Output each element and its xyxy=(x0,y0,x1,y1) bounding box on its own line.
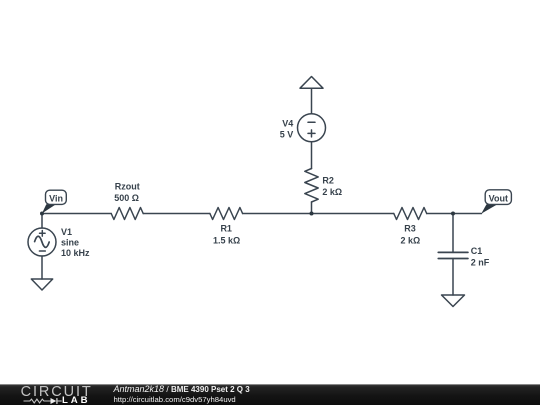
svg-text:R3: R3 xyxy=(404,224,416,234)
svg-text:5 V: 5 V xyxy=(280,129,294,139)
svg-text:2 nF: 2 nF xyxy=(471,257,490,267)
svg-text:V1: V1 xyxy=(61,227,72,237)
svg-text:2 kΩ: 2 kΩ xyxy=(401,236,421,246)
svg-text:Antman2k18 / BME 4390 Pset 2 Q: Antman2k18 / BME 4390 Pset 2 Q 3 xyxy=(113,384,251,394)
svg-text:Vin: Vin xyxy=(49,193,63,203)
svg-text:R1: R1 xyxy=(220,224,232,234)
svg-text:500 Ω: 500 Ω xyxy=(114,193,139,203)
svg-text:10 kHz: 10 kHz xyxy=(61,248,90,258)
svg-text:R2: R2 xyxy=(322,176,334,186)
svg-text:2 kΩ: 2 kΩ xyxy=(322,187,342,197)
svg-text:C1: C1 xyxy=(471,246,483,256)
svg-text:Rzout: Rzout xyxy=(115,182,140,192)
svg-text:Vout: Vout xyxy=(489,194,508,204)
svg-text:1.5 kΩ: 1.5 kΩ xyxy=(213,236,240,246)
svg-text:http://circuitlab.com/c9dv57yh: http://circuitlab.com/c9dv57yh84uvd xyxy=(114,395,236,404)
svg-text:LAB: LAB xyxy=(62,395,90,405)
svg-text:V4: V4 xyxy=(282,119,293,129)
svg-text:sine: sine xyxy=(61,237,79,247)
